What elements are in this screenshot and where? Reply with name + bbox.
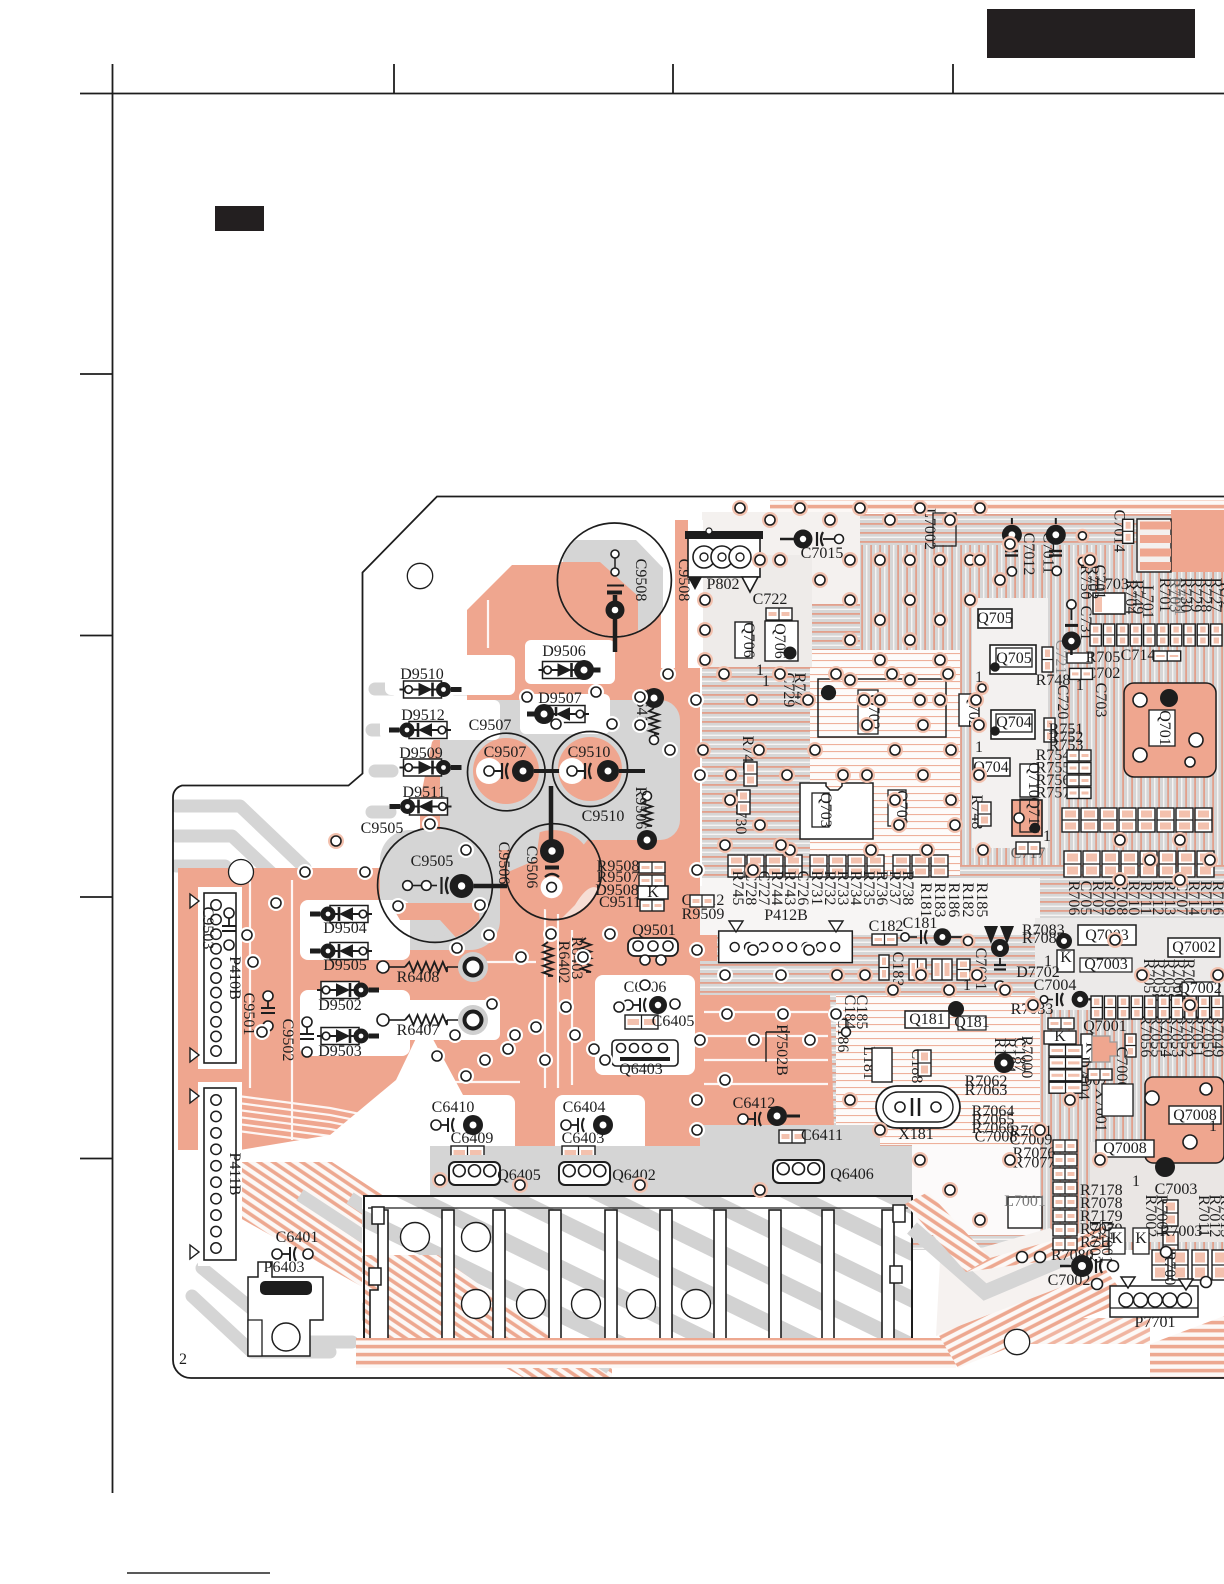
svg-text:P411B: P411B [226,1153,243,1196]
svg-text:1: 1 [1043,828,1051,845]
svg-text:Q6406: Q6406 [830,1166,874,1183]
svg-text:D9511: D9511 [403,784,446,801]
svg-text:1: 1 [975,739,983,756]
svg-text:C9510: C9510 [582,808,625,825]
svg-text:C9505: C9505 [411,853,454,870]
svg-text:R9506: R9506 [632,787,649,830]
svg-text:Q7001: Q7001 [1083,1018,1127,1035]
svg-text:R7077: R7077 [1013,1155,1056,1172]
svg-text:C6405: C6405 [652,1013,695,1030]
svg-text:P6403: P6403 [264,1259,305,1276]
svg-text:C7004: C7004 [1034,977,1077,994]
svg-text:Q181: Q181 [909,1011,945,1028]
svg-text:K: K [1060,949,1072,966]
svg-text:K: K [647,884,659,901]
svg-text:Q7002: Q7002 [1172,939,1216,956]
svg-text:D9510: D9510 [400,666,444,683]
svg-text:C722: C722 [753,591,788,608]
svg-text:R750: R750 [1077,565,1094,600]
svg-text:C6411: C6411 [801,1127,843,1144]
svg-text:D9502: D9502 [318,997,362,1014]
svg-text:C720: C720 [1054,685,1071,720]
svg-text:P412B: P412B [764,907,808,924]
svg-text:C9503: C9503 [199,907,216,950]
svg-text:C703: C703 [1092,683,1109,718]
svg-text:P802: P802 [707,576,740,593]
svg-text:Q7008: Q7008 [1103,1140,1147,1157]
svg-text:Q9501: Q9501 [632,922,676,939]
svg-text:C6410: C6410 [432,1099,475,1116]
svg-text:R72: R72 [1217,582,1224,609]
svg-text:1: 1 [1132,1173,1140,1190]
svg-text:Q181: Q181 [954,1014,990,1031]
svg-text:C9507: C9507 [484,744,527,761]
svg-text:C7012: C7012 [1020,533,1037,576]
svg-text:D9512: D9512 [401,707,445,724]
svg-text:C7002: C7002 [1048,1272,1091,1289]
svg-text:C9505: C9505 [361,820,404,837]
svg-text:1: 1 [1076,677,1084,694]
svg-text:R6408: R6408 [397,969,440,986]
svg-text:R7003: R7003 [1160,1223,1203,1240]
svg-text:R7015: R7015 [1217,1195,1224,1238]
svg-text:C9511: C9511 [599,894,641,911]
svg-text:K: K [1054,1028,1066,1045]
svg-text:C9501: C9501 [240,993,257,1036]
svg-text:Q703: Q703 [817,792,834,828]
svg-text:Q705: Q705 [996,650,1032,667]
svg-text:Q704: Q704 [996,714,1032,731]
svg-text:C6412: C6412 [733,1095,776,1112]
svg-text:C9502: C9502 [279,1019,296,1062]
svg-text:C6404: C6404 [563,1099,606,1116]
svg-text:Q6403: Q6403 [619,1061,663,1078]
svg-text:C7006: C7006 [1113,1047,1130,1090]
svg-text:D9509: D9509 [399,745,443,762]
svg-text:1: 1 [762,673,770,690]
svg-text:R738: R738 [899,871,916,906]
svg-text:C9510: C9510 [568,744,611,761]
svg-text:C183: C183 [889,952,906,987]
svg-text:C9507: C9507 [469,717,512,734]
svg-text:C182: C182 [869,918,904,935]
svg-text:R7063: R7063 [965,1082,1008,1099]
svg-text:R6407: R6407 [397,1022,440,1039]
svg-text:2: 2 [179,1351,187,1368]
svg-text:1: 1 [963,977,971,994]
svg-text:1: 1 [1209,1118,1217,1135]
svg-text:C185: C185 [853,995,870,1030]
svg-text:Q7002: Q7002 [1178,980,1222,997]
svg-text:R185: R185 [973,883,990,918]
svg-text:R7000: R7000 [1018,1036,1035,1079]
svg-text:Q706: Q706 [740,622,757,658]
svg-text:C6401: C6401 [276,1229,319,1246]
svg-text:1: 1 [975,669,983,686]
svg-text:C181: C181 [903,915,938,932]
svg-text:R9509: R9509 [682,906,725,923]
svg-text:D9503: D9503 [318,1043,362,1060]
svg-text:R704: R704 [1122,580,1139,615]
svg-text:P7701: P7701 [1135,1314,1176,1331]
svg-text:C6409: C6409 [451,1130,494,1147]
svg-text:D9506: D9506 [542,643,586,660]
svg-text:C9506: C9506 [495,842,512,885]
svg-text:C6403: C6403 [562,1130,605,1147]
svg-text:Q701: Q701 [1156,710,1173,746]
svg-text:C9506: C9506 [523,846,540,889]
svg-text:C714: C714 [1121,647,1156,664]
svg-text:C9508: C9508 [632,559,649,602]
svg-text:X181: X181 [898,1126,934,1143]
svg-text:D9505: D9505 [323,957,367,974]
svg-text:R7049: R7049 [1209,1015,1224,1058]
svg-text:K: K [1135,1230,1147,1247]
svg-text:Q705: Q705 [977,610,1013,627]
svg-text:C7015: C7015 [801,545,844,562]
svg-text:R705: R705 [1086,649,1121,666]
svg-text:D9504: D9504 [323,920,367,937]
svg-text:Q7003: Q7003 [1084,956,1128,973]
svg-text:L7001: L7001 [1004,1193,1046,1210]
